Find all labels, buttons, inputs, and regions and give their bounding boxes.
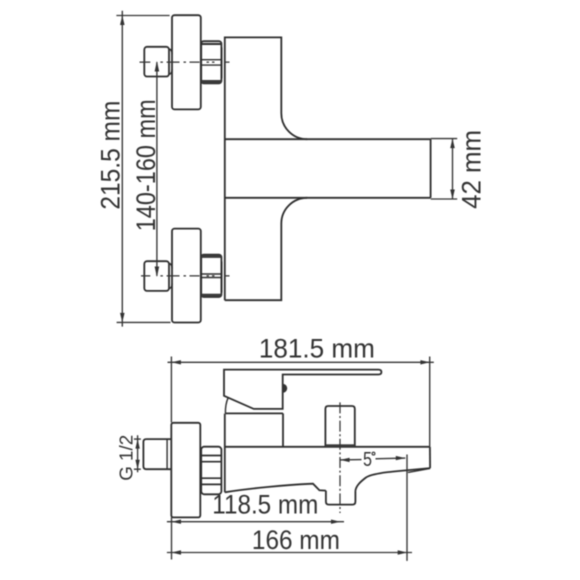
arrow 140-160 top — [155, 61, 160, 72]
side mounting nut — [201, 447, 221, 495]
outlet extension line — [406, 455, 408, 561]
cartridge collar curve — [225, 398, 228, 414]
dim 42: dimension line — [452, 139, 454, 199]
bottom eccentric connector — [144, 261, 169, 291]
bottom mounting nut — [201, 255, 221, 297]
svg-text:166 mm: 166 mm — [252, 525, 340, 555]
centerline top connection — [140, 61, 230, 63]
arrow 140-160 bottom — [155, 267, 160, 278]
spout underside left of aerator — [225, 484, 326, 493]
dim 181.5: extension lines — [171, 357, 429, 447]
arrow G12 bottom — [135, 460, 139, 470]
dim 215.5: extension line top — [116, 15, 169, 17]
spout underside right of aerator — [355, 468, 430, 491]
body top edge (side) — [225, 412, 283, 414]
arrow 166 left — [172, 550, 182, 554]
spout (front view) bottom edge — [225, 197, 431, 199]
G 1/2 dim line and ticks — [134, 435, 141, 472]
bottom escutcheon plate — [172, 229, 201, 323]
G 1/2 threaded nipple — [143, 439, 170, 469]
dim 181.5: dimension line — [168, 361, 434, 363]
arrow G12 top — [135, 439, 139, 449]
body front edge (side) — [282, 413, 284, 446]
top connection pipe slivers — [221, 47, 223, 78]
bottom connection pipe slivers — [221, 262, 223, 293]
diverter/aerator centerline — [339, 402, 341, 513]
spout outlet lip — [408, 468, 430, 472]
centerline bottom connection — [141, 275, 230, 277]
dim 166: dimension line — [167, 552, 412, 554]
left extension line below flange — [171, 518, 173, 560]
spout (front view) end face — [430, 139, 432, 198]
dim 140-160: dimension line — [156, 62, 158, 276]
dim 42: extension lines — [431, 139, 458, 199]
5 deg dimension line — [340, 458, 405, 460]
arrow 118.5 left — [172, 520, 182, 524]
svg-text:42 mm: 42 mm — [456, 130, 486, 209]
dim 215.5: extension line bottom — [117, 321, 171, 323]
top escutcheon plate — [172, 15, 201, 109]
lever handle outline — [224, 370, 381, 409]
aerator housing — [326, 491, 356, 505]
arrow 215.5 bottom — [120, 313, 125, 323]
arrow 42 bottom — [450, 190, 455, 200]
diverter knob (side) — [325, 406, 354, 447]
arrow 166 right — [398, 550, 408, 554]
svg-text:140-160 mm: 140-160 mm — [131, 99, 161, 231]
body left edge (side) — [224, 414, 226, 493]
dim 118.5: dimension line — [167, 521, 344, 523]
svg-text:215.5 mm: 215.5 mm — [95, 101, 125, 210]
wall flange (side) — [171, 423, 200, 518]
spout top edge (side) — [225, 446, 430, 448]
handle pivot boss — [283, 384, 288, 393]
svg-text:118.5 mm: 118.5 mm — [212, 489, 318, 519]
arrow 181.5 right — [420, 360, 430, 364]
arrow 118.5 right — [331, 520, 341, 524]
svg-text:181.5 mm: 181.5 mm — [259, 334, 375, 364]
svg-text:G 1/2: G 1/2 — [117, 435, 137, 481]
arrow 42 top — [450, 139, 455, 149]
arrow 5deg right — [396, 456, 406, 460]
top eccentric connector — [144, 47, 169, 77]
top mounting nut — [201, 41, 221, 83]
dim 215.5: dimension line — [121, 11, 123, 327]
arrow 5deg left — [340, 458, 350, 462]
svg-text:5: 5 — [363, 449, 372, 471]
spout tip face — [429, 447, 431, 468]
spout (front view) top edge — [225, 138, 431, 140]
faucet body (front view) with spout fillets — [225, 37, 307, 300]
arrow 215.5 top — [120, 16, 125, 26]
arrow 181.5 left — [171, 360, 181, 364]
